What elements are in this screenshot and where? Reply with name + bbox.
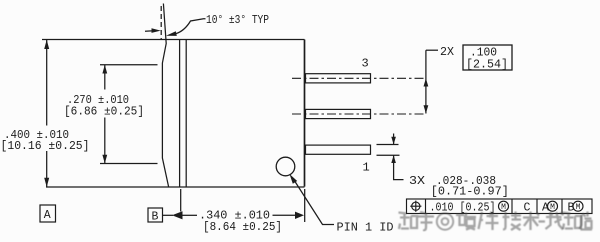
svg-text:A: A bbox=[44, 209, 51, 222]
svg-text:M: M bbox=[576, 203, 581, 212]
svg-text:[8.64 ±0.25]: [8.64 ±0.25] bbox=[203, 220, 282, 234]
svg-text:[10.16 ±0.25]: [10.16 ±0.25] bbox=[1, 139, 90, 153]
svg-text:[0.71-0.97]: [0.71-0.97] bbox=[431, 184, 509, 198]
svg-text:1: 1 bbox=[363, 161, 370, 175]
svg-text:B: B bbox=[152, 211, 159, 224]
svg-text:10° ±3° TYP: 10° ±3° TYP bbox=[206, 13, 269, 27]
svg-text:[6.86 ±0.25]: [6.86 ±0.25] bbox=[64, 105, 144, 119]
svg-text:3: 3 bbox=[362, 57, 369, 71]
svg-text:.010 [0.25]: .010 [0.25] bbox=[430, 201, 496, 214]
svg-text:2X: 2X bbox=[440, 45, 454, 59]
svg-text:[2.54]: [2.54] bbox=[466, 58, 508, 72]
svg-text:M: M bbox=[550, 203, 555, 212]
svg-text:PIN 1 ID: PIN 1 ID bbox=[337, 220, 394, 234]
svg-text:A: A bbox=[542, 201, 549, 214]
svg-text:3X: 3X bbox=[409, 174, 425, 188]
svg-text:M: M bbox=[501, 203, 506, 212]
